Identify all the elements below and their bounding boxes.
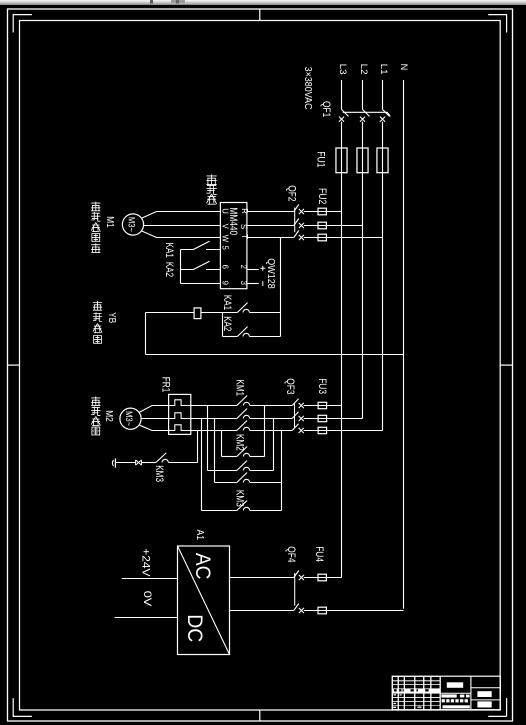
FU1 fuse body	[336, 148, 347, 173]
QF2 contact x	[299, 223, 304, 228]
svg-text:QF2: QF2	[286, 185, 298, 201]
title text blob	[441, 694, 456, 697]
wire QF3 to bus	[304, 430, 383, 432]
svg-text:L2: L2	[359, 64, 369, 75]
wire A1 to QF4 top	[230, 577, 294, 579]
wire brake left drop	[145, 313, 147, 355]
svg-text:KA1: KA1	[163, 243, 175, 258]
svg-text:FU2: FU2	[316, 188, 328, 204]
wire V to M1	[144, 225, 221, 227]
title right blob 2	[477, 701, 491, 707]
QF1 contact x	[339, 117, 344, 122]
wire pin9	[181, 283, 221, 285]
wire ground to connector	[116, 462, 136, 464]
FR1 heater element	[169, 400, 191, 406]
QF4 linkage bar	[294, 573, 296, 606]
wire brake left	[146, 312, 195, 314]
svg-text:KM3: KM3	[153, 465, 165, 482]
svg-text:0V: 0V	[141, 591, 153, 608]
svg-text:+24V: +24V	[139, 548, 151, 577]
FR1 heater element	[169, 413, 191, 419]
QF3 contact x	[299, 416, 304, 421]
title right blob 1	[477, 691, 491, 697]
title cell mark	[394, 694, 397, 695]
contact KA2 (pin6)	[181, 261, 221, 269]
svg-text:9: 9	[221, 281, 230, 285]
title block mid line	[440, 692, 471, 694]
QF2 blade	[294, 219, 299, 226]
FU3 fuse body	[318, 427, 327, 433]
corner mark top-right	[488, 15, 506, 33]
svg-text:6: 6	[221, 265, 230, 269]
title block text mark	[399, 689, 401, 691]
svg-text:R: R	[240, 208, 249, 214]
contactor KM2 contact	[222, 456, 237, 458]
QF1 linkage bar	[343, 112, 391, 116]
wire row3 to aux	[197, 431, 199, 463]
QF1 contact x	[380, 117, 385, 122]
wire KA common	[180, 250, 182, 284]
YB coil body	[194, 308, 201, 319]
wire N bus	[403, 80, 405, 609]
A1 body	[178, 546, 230, 655]
title block text mark	[394, 689, 397, 691]
title text blob	[460, 695, 464, 698]
centering mark right	[500, 364, 512, 366]
FU4 fuse body top	[318, 574, 326, 581]
contactor KM3 contact	[202, 510, 237, 512]
title block divider 2	[470, 676, 472, 710]
A1 diagonal	[178, 546, 230, 655]
QF3 blade	[292, 424, 299, 431]
connector (plug-socket)	[136, 460, 142, 465]
wire L1 upper	[382, 80, 384, 109]
title cell mark	[393, 707, 396, 708]
svg-text:M1: M1	[104, 216, 115, 228]
QF4 contact x	[299, 575, 304, 580]
QF3 contact x	[299, 403, 304, 408]
FU2 fuse body	[318, 208, 326, 215]
QF4 blade	[294, 604, 299, 611]
label shengjiang dianji	[91, 396, 100, 405]
QF4 contact x	[299, 608, 304, 613]
wire aux horizontal	[168, 462, 197, 464]
contact KA1 (pin5)	[181, 241, 221, 249]
svg-text:N: N	[399, 64, 409, 71]
svg-text:T: T	[240, 234, 249, 239]
title text blob bottom	[443, 705, 470, 708]
wire brake return to N	[146, 354, 404, 356]
svg-text:KA2: KA2	[163, 262, 175, 277]
title cell mark	[418, 707, 422, 708]
label qianhouxing dianji	[91, 202, 100, 211]
svg-text:M3~: M3~	[126, 217, 137, 232]
QF3 blade	[292, 412, 299, 419]
title block left grid (white base)	[392, 676, 440, 710]
title cell mark	[394, 703, 397, 704]
minus sign (rotated)	[262, 281, 264, 286]
svg-text:3×380VAC: 3×380VAC	[302, 67, 314, 110]
FU3 fuse body	[318, 402, 327, 408]
corner mark bottom-right	[488, 698, 506, 716]
wire coil to KA1	[201, 312, 237, 314]
svg-text:YB: YB	[106, 312, 117, 323]
wire L2 upper	[362, 80, 364, 109]
contactor KM1 contact	[191, 430, 237, 432]
QF1 blade	[363, 109, 370, 116]
QF2 blade	[294, 205, 299, 212]
FR1 heater element	[169, 425, 191, 431]
svg-text:M2: M2	[103, 410, 114, 422]
centering mark bottom	[259, 710, 261, 721]
wire QF4 to L3 bus	[304, 577, 342, 579]
FU1 fuse body	[377, 148, 388, 173]
svg-text:2: 2	[239, 265, 248, 269]
wire M2 top	[139, 406, 169, 413]
FU2 fuse body	[318, 222, 326, 229]
wire KM2 row2 up	[273, 419, 275, 471]
contactor KM3 aux contact	[156, 453, 166, 463]
svg-text:QF3: QF3	[284, 378, 296, 394]
contact KA2 (brake)	[222, 313, 224, 337]
wire M2 mid	[141, 418, 169, 420]
corner mark bottom-left	[13, 698, 32, 716]
QF2 linkage bar	[294, 208, 296, 233]
wire QF2 to bus	[304, 225, 363, 227]
wire connector to KM3 aux	[142, 462, 156, 464]
QF2 contact x	[299, 235, 304, 240]
QF4 blade	[294, 571, 299, 578]
wire +24V	[122, 578, 178, 580]
svg-text:KM1: KM1	[234, 379, 246, 396]
wire row2 to KM3	[201, 419, 203, 511]
title text blob small	[455, 699, 458, 702]
svg-text:DC: DC	[183, 614, 207, 642]
wire QF3 to bus	[304, 405, 342, 407]
svg-text:W: W	[220, 235, 229, 243]
wire inverter to QF2	[247, 237, 294, 239]
QF3 linkage bar	[294, 404, 296, 429]
svg-text:3: 3	[239, 281, 248, 285]
motor M1	[122, 214, 143, 235]
title text blob small	[460, 699, 463, 702]
svg-text:V: V	[221, 224, 230, 230]
node - (pin3)	[247, 283, 259, 285]
svg-text:U: U	[221, 208, 230, 214]
ground (chassis)	[114, 459, 116, 468]
svg-text:KA1: KA1	[221, 295, 233, 310]
wire U to M1	[141, 212, 220, 219]
wire QF4 to N bus	[304, 610, 404, 612]
wire row2 to KM2 row3	[214, 419, 216, 483]
title text blob	[466, 695, 470, 698]
QF1 blade	[342, 109, 349, 116]
plus sign	[260, 266, 265, 271]
FU1 fuse body	[357, 148, 368, 173]
title block right line 2	[471, 699, 500, 701]
svg-text:QF1: QF1	[320, 101, 332, 117]
title text blob small	[465, 699, 468, 702]
contactor KM2 contact	[208, 470, 237, 472]
FU2 fuse body	[318, 234, 326, 241]
wire T-phase down to brake	[280, 238, 282, 313]
wire row1 to KM2 row2	[207, 406, 209, 471]
wire L2 bus	[362, 122, 364, 419]
QF2 blade	[294, 231, 299, 238]
wire L1 bus	[382, 122, 384, 431]
centering mark left	[8, 364, 20, 366]
title text blob small	[442, 699, 445, 702]
title text blob small	[446, 699, 449, 702]
wire 0V	[115, 617, 178, 619]
svg-text:FR1: FR1	[160, 377, 172, 393]
contact KA1 (brake)	[237, 303, 247, 313]
wire inverter to QF2	[247, 211, 294, 213]
FR1 body	[169, 394, 191, 434]
svg-text:FU4: FU4	[313, 546, 325, 562]
svg-text:S: S	[239, 224, 248, 229]
wire L3 upper	[341, 80, 343, 109]
title block right line 1	[471, 687, 500, 689]
QF2 contact x	[299, 209, 304, 214]
wire A1 to QF4 bottom	[230, 610, 294, 612]
wire W to M1	[141, 231, 220, 238]
MM440 block body	[220, 203, 247, 289]
contactor KM1 contact	[191, 418, 237, 420]
wire QF2 to bus	[304, 237, 383, 239]
QF3 blade	[292, 399, 299, 406]
centering mark top	[259, 9, 261, 21]
svg-text:5: 5	[221, 246, 230, 251]
QF1 contact x	[360, 117, 365, 122]
corner mark top-left	[13, 15, 32, 33]
svg-text:L1: L1	[379, 64, 389, 75]
wire KA right node	[280, 313, 282, 337]
FU4 fuse body bottom	[318, 607, 326, 614]
svg-text:A1: A1	[194, 530, 205, 541]
contactor KM2 contact	[215, 482, 237, 484]
title text blob (drawing name)	[447, 682, 463, 688]
wire KM2 row1 up	[264, 406, 266, 457]
svg-text:M3~: M3~	[123, 411, 134, 426]
svg-text:QF4: QF4	[285, 546, 297, 562]
title block text mark	[417, 689, 418, 691]
QF1 blade	[383, 109, 390, 116]
wire M2 bot	[139, 425, 169, 431]
title block border	[392, 676, 500, 710]
QF3 contact x	[299, 428, 304, 433]
wire inverter to QF2	[247, 225, 294, 227]
wire QF3 to bus	[304, 418, 363, 420]
svg-text:FU1: FU1	[314, 151, 326, 167]
contactor KM1 contact	[191, 405, 237, 407]
label bianpinqi (inverter)	[207, 174, 217, 184]
svg-text:QW128: QW128	[265, 258, 276, 289]
svg-text:FU3: FU3	[316, 378, 328, 394]
motor M2	[120, 408, 141, 429]
title block divider 1	[439, 676, 441, 710]
title text blob small	[451, 699, 454, 702]
svg-text:KM2: KM2	[234, 434, 246, 451]
FU3 fuse body	[318, 415, 327, 421]
wire L3 bus	[341, 122, 343, 578]
title block text mark	[425, 689, 428, 691]
wire QF2 to bus	[304, 211, 342, 213]
svg-text:L3: L3	[338, 64, 348, 75]
title cell mark	[400, 694, 402, 695]
wire KM2 row3 / KM3 up	[281, 431, 283, 511]
title block text mark	[403, 689, 404, 691]
svg-text:AC: AC	[191, 553, 215, 580]
title block text mark	[411, 689, 414, 691]
label dianci baozha (brake)	[93, 301, 102, 310]
wire row3 to KM2 row1	[221, 431, 223, 457]
node + (pin2)	[247, 269, 259, 271]
